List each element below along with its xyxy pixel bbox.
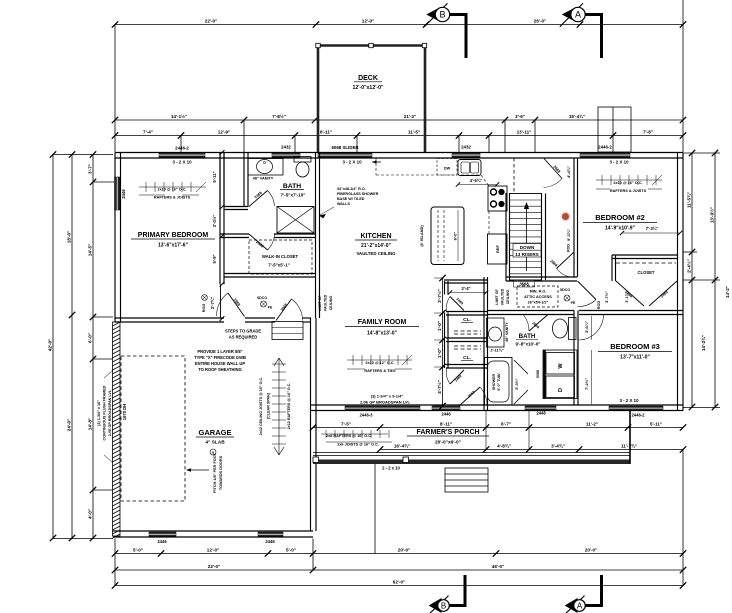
rod symbol primary bedroom: [202, 295, 208, 301]
island dim 8-0: [457, 210, 459, 261]
ext stub 505: [504, 120, 506, 152]
svg-text:2'-11¾": 2'-11¾": [490, 349, 503, 353]
svg-text:TO ROOF SHEATHING: TO ROOF SHEATHING: [198, 367, 242, 372]
svg-text:11'-7¾": 11'-7¾": [621, 443, 637, 449]
svg-text:KITCHEN: KITCHEN: [360, 233, 391, 240]
window 2448 bottom: [525, 406, 556, 410]
svg-text:5'-11": 5'-11": [650, 422, 662, 427]
svg-text:1'-0": 1'-0": [437, 348, 442, 358]
svg-text:MIN. R.O.: MIN. R.O.: [530, 290, 547, 294]
svg-text:BATH: BATH: [283, 183, 301, 190]
garage top wall east: [303, 317, 312, 319]
svg-text:20'-0": 20'-0": [398, 548, 410, 553]
door CL1: [450, 297, 464, 311]
svg-text:D: D: [558, 388, 564, 392]
svg-text:2x10 @ 12" O.C.: 2x10 @ 12" O.C.: [365, 361, 394, 365]
svg-text:BATH: BATH: [519, 333, 536, 340]
left ext stub top: [53, 154, 113, 156]
svg-text:6'-11": 6'-11": [320, 130, 332, 135]
svg-text:11'-5¾": 11'-5¾": [686, 192, 692, 208]
porch post left: [313, 457, 319, 463]
svg-text:5'-0": 5'-0": [286, 548, 296, 553]
left ext stub 490: [93, 489, 112, 491]
smoke detector entry: [261, 301, 267, 307]
svg-text:(CLEAR SPAN): (CLEAR SPAN): [267, 392, 271, 419]
svg-text:8'-11": 8'-11": [440, 422, 452, 427]
primary bedroom rafter symbol: [139, 186, 206, 188]
laundry closet wall dark edge: [543, 350, 545, 399]
CL mid wall: [446, 337, 487, 339]
CL top wall: [444, 279, 487, 281]
slider 6068: [318, 153, 372, 158]
wall under stairs: [506, 276, 577, 278]
svg-text:3'-0½": 3'-0½": [212, 215, 217, 228]
svg-text:2'-4": 2'-4": [461, 286, 470, 291]
porch dim row 2: [380, 449, 683, 451]
section marker B: [429, 598, 442, 613]
bifold door marks: [514, 360, 528, 374]
svg-text:7'-5": 7'-5": [341, 422, 351, 427]
svg-text:21'-2": 21'-2": [404, 114, 416, 119]
right exterior wall: [677, 153, 679, 411]
svg-text:AS REQUIRED: AS REQUIRED: [229, 335, 257, 340]
svg-text:6068 SLIDER: 6068 SLIDER: [331, 145, 359, 150]
header 2446-3 family room: [345, 406, 420, 410]
svg-text:26'-0": 26'-0": [534, 19, 546, 24]
svg-text:CL.: CL.: [463, 317, 471, 323]
svg-text:VAULTED: VAULTED: [324, 294, 328, 311]
svg-text:RAFTERS & JOISTS: RAFTERS & JOISTS: [154, 196, 191, 200]
svg-text:1'-0": 1'-0": [437, 321, 442, 331]
svg-text:3'-7¾": 3'-7¾": [210, 297, 215, 310]
bath north wall: [487, 310, 574, 312]
red survey dot: [562, 213, 569, 220]
svg-text:STEPS TO GRADE: STEPS TO GRADE: [225, 329, 261, 334]
svg-text:FIBERGLASS SHOWER: FIBERGLASS SHOWER: [337, 192, 379, 196]
svg-text:2446: 2446: [157, 539, 167, 544]
door lower hall 2868: [557, 252, 575, 269]
entry steps rect: [272, 322, 303, 340]
svg-text:3'-7½": 3'-7½": [436, 289, 442, 303]
svg-text:2.0E GP BROADSPAN LVL: 2.0E GP BROADSPAN LVL: [360, 400, 411, 405]
garage ceiling joist symbol: [278, 358, 280, 455]
left ext stub 317: [93, 316, 113, 318]
svg-text:4" SLAB: 4" SLAB: [205, 440, 225, 446]
top exterior wall: [115, 152, 683, 154]
svg-text:24'-0": 24'-0": [67, 419, 72, 431]
door bath vestibule upper: [249, 191, 268, 207]
svg-text:FARMER'S PORCH: FARMER'S PORCH: [416, 429, 479, 436]
right ext stub 252: [683, 251, 697, 253]
bedroom2 closet: [612, 254, 678, 256]
interior dim column 442: [442, 278, 444, 406]
svg-text:5'-0": 5'-0": [133, 548, 143, 553]
deck post mid: [369, 43, 373, 47]
svg-text:BEDROOM #3: BEDROOM #3: [610, 342, 660, 351]
kitchen island: [431, 207, 464, 265]
svg-text:14'-2": 14'-2": [725, 286, 730, 298]
ext line right bottom: [682, 449, 684, 586]
svg-text:2x6 JOISTS @ 16" O.C.: 2x6 JOISTS @ 16" O.C.: [337, 443, 379, 447]
svg-text:SDCO: SDCO: [560, 288, 570, 292]
svg-text:WALLS: WALLS: [337, 202, 350, 206]
svg-text:5'-3½": 5'-3½": [515, 378, 519, 390]
svg-text:21'-2"x14'-0": 21'-2"x14'-0": [361, 243, 392, 249]
right dim col inner: [691, 153, 693, 407]
svg-text:(3) 1-3/4" x 16": (3) 1-3/4" x 16": [97, 400, 101, 426]
svg-text:(3) 1-3/4" x 9-1/4": (3) 1-3/4" x 9-1/4": [371, 394, 404, 399]
svg-text:48" VANITY: 48" VANITY: [253, 177, 274, 181]
door top of stairs: [544, 159, 562, 179]
corner counter: [481, 175, 489, 186]
garage window 2446 right: [258, 532, 283, 537]
svg-text:3'-6¼": 3'-6¼": [584, 321, 589, 333]
door 3668 label: [514, 280, 535, 287]
svg-text:3 - 2 X 10: 3 - 2 X 10: [342, 160, 362, 165]
porch ext line 486: [485, 411, 487, 450]
garage door dashed opening: [121, 356, 185, 501]
svg-text:3 - 2 X 10: 3 - 2 X 10: [172, 160, 192, 165]
top-right projection: [598, 107, 631, 152]
svg-text:B: B: [441, 601, 446, 610]
svg-text:13'-6"x17'-6": 13'-6"x17'-6": [158, 243, 189, 249]
kitchen sink: [458, 160, 481, 176]
svg-text:2446-2: 2446-2: [598, 145, 612, 150]
svg-text:2.0E GP BROADSPAN LVL: 2.0E GP BROADSPAN LVL: [108, 389, 112, 436]
porch steps: [445, 468, 488, 492]
svg-text:3'-4¾": 3'-4¾": [551, 443, 565, 449]
ext stub 295: [294, 136, 296, 153]
deck walls: [317, 44, 427, 47]
svg-text:14'-9"x10'-9": 14'-9"x10'-9": [605, 226, 636, 232]
svg-text:2 - 2 x 10: 2 - 2 x 10: [382, 466, 400, 471]
svg-text:9'-8"x10'-0": 9'-8"x10'-0": [516, 342, 541, 347]
svg-text:3 - 2 X 10: 3 - 2 X 10: [619, 398, 639, 403]
svg-text:14'-5": 14'-5": [88, 244, 93, 256]
bedroom2 rafter symbol: [596, 179, 662, 181]
svg-text:6'-0": 6'-0": [88, 333, 93, 343]
svg-text:2446-2: 2446-2: [175, 146, 189, 151]
svg-text:2446: 2446: [441, 412, 451, 417]
farmers porch deck: [313, 452, 630, 454]
svg-text:2x10 @ 16" O.C.: 2x10 @ 16" O.C.: [157, 188, 186, 192]
CL column left wall upper: [444, 281, 446, 295]
svg-text:3 - 2 X 10: 3 - 2 X 10: [609, 160, 629, 165]
refrigerator: [488, 234, 508, 264]
svg-text:LIMIT OF: LIMIT OF: [318, 295, 322, 311]
right ext stub 407: [683, 407, 720, 409]
svg-text:4'-8¾": 4'-8¾": [497, 443, 511, 449]
dim row 2: [115, 119, 683, 121]
closet north wall right segment: [274, 233, 316, 235]
svg-text:SHOWER: SHOWER: [492, 374, 496, 391]
section marker A: [565, 598, 578, 613]
door bedroom2 corner: [578, 281, 597, 300]
ext line left bottom: [114, 539, 116, 586]
left ext stub 359: [93, 358, 112, 360]
landing dashed boundary: [513, 158, 515, 193]
svg-text:B: B: [439, 10, 445, 20]
attic access dashed: [517, 286, 558, 307]
svg-text:15'-4¾": 15'-4¾": [569, 113, 585, 119]
ext line house left top: [114, 25, 116, 153]
svg-text:2446-2: 2446-2: [631, 413, 645, 418]
svg-text:18'-0": 18'-0": [67, 231, 72, 243]
left ext stub bottom: [53, 538, 113, 540]
svg-text:8'-0": 8'-0": [453, 232, 458, 241]
stair arrow: [526, 206, 528, 271]
CL2 bottom wall: [446, 364, 487, 366]
svg-text:7'-8½": 7'-8½": [272, 113, 286, 119]
svg-text:DW: DW: [444, 167, 451, 171]
garage top wall west: [115, 317, 224, 319]
svg-text:48" VANITY: 48" VANITY: [505, 322, 509, 342]
svg-text:2x8 RAFTERS @ 16" O.C.: 2x8 RAFTERS @ 16" O.C.: [326, 434, 372, 438]
svg-text:PRIMARY BEDROOM: PRIMARY BEDROOM: [138, 232, 209, 239]
svg-text:11'-2": 11'-2": [586, 422, 598, 427]
stove/range: [488, 186, 507, 211]
svg-text:BEDROOM #2: BEDROOM #2: [595, 213, 645, 222]
stairwell: [510, 194, 542, 281]
svg-text:16'-4¾": 16'-4¾": [394, 443, 410, 449]
CL column left wall mid: [444, 313, 446, 369]
bottom dim row 1: [115, 553, 683, 555]
ext line porch 375: [374, 464, 376, 554]
wall bath-closet column east / kitchen west: [315, 153, 317, 319]
bedroom2 left wall: [573, 158, 575, 277]
svg-text:TYPE "X" FIRECODE GWB: TYPE "X" FIRECODE GWB: [194, 355, 246, 360]
ext stub 244: [243, 120, 245, 152]
right ext stub 280: [683, 279, 720, 281]
svg-text:3'-7½": 3'-7½": [604, 291, 609, 303]
svg-text:5'-9": 5'-9": [212, 254, 217, 263]
smoke detector hall: [564, 295, 570, 301]
svg-text:A: A: [575, 10, 581, 20]
svg-text:(6' ISLAND): (6' ISLAND): [419, 225, 424, 247]
svg-text:TOWARDS DOORS: TOWARDS DOORS: [219, 455, 223, 490]
svg-text:CEILING: CEILING: [329, 296, 333, 311]
ext stub 459: [458, 136, 460, 153]
svg-text:12'-0": 12'-0": [362, 19, 374, 24]
svg-text:W: W: [558, 363, 564, 369]
svg-text:VAULTED: VAULTED: [501, 288, 505, 305]
svg-text:REF: REF: [495, 244, 500, 253]
svg-text:5'-11": 5'-11": [212, 171, 217, 182]
svg-text:FAMILY ROOM: FAMILY ROOM: [358, 319, 407, 326]
shower with X: [277, 207, 314, 234]
ext stub 489: [488, 136, 490, 153]
svg-text:3'-1¾": 3'-1¾": [625, 291, 629, 303]
closet double doors: [616, 281, 644, 306]
right ext stub 153: [683, 152, 720, 154]
svg-text:3'-7": 3'-7": [88, 164, 93, 174]
pitch arrow: [190, 469, 209, 471]
closet rod dashed: [249, 240, 312, 274]
svg-text:VAULTED CEILING: VAULTED CEILING: [356, 251, 396, 256]
svg-text:CLOSET: CLOSET: [638, 270, 655, 275]
stair left wall: [505, 193, 507, 281]
porch dim row 1: [313, 427, 683, 429]
porch ext line 529: [528, 411, 530, 450]
primary bath vanity: [248, 159, 283, 176]
left ext stub 182: [93, 181, 114, 183]
porch post: [403, 457, 409, 463]
svg-text:RAFTERS & JOISTS: RAFTERS & JOISTS: [610, 189, 647, 193]
walk-in closet south wall: [224, 273, 316, 275]
svg-text:7'-4": 7'-4": [143, 130, 153, 135]
door bath: [529, 315, 548, 332]
svg-text:2x10 @ 16" O.C.: 2x10 @ 16" O.C.: [613, 181, 642, 185]
stair right wall: [541, 194, 543, 281]
svg-text:PE: PE: [268, 306, 273, 310]
svg-text:BASE W/ TILED: BASE W/ TILED: [337, 197, 365, 201]
left dim col 3: [92, 155, 94, 539]
bottom exterior wall: [311, 404, 683, 406]
svg-text:RAFTERS & TIES: RAFTERS & TIES: [364, 369, 396, 373]
window 2446-2 right: [580, 153, 630, 158]
ext stub 313 bottom: [312, 539, 314, 571]
svg-text:2x12 CEILING JOISTS @ 16" O.C.: 2x12 CEILING JOISTS @ 16" O.C.: [259, 377, 263, 435]
deck post right: [422, 43, 426, 47]
svg-text:3668: 3668: [519, 281, 529, 286]
svg-text:5088: 5088: [536, 370, 540, 378]
svg-text:PROVIDE 1 LAYER 5/8": PROVIDE 1 LAYER 5/8": [197, 349, 242, 354]
right dim col outer: [714, 153, 716, 407]
svg-text:ROD: ROD: [597, 301, 601, 310]
svg-text:SDCO: SDCO: [257, 296, 267, 300]
family room rafter symbol: [347, 359, 412, 361]
svg-text:4'-7½": 4'-7½": [436, 380, 442, 394]
svg-text:20'-0"x6'-0": 20'-0"x6'-0": [435, 440, 461, 446]
bottom dim row 3 62ft: [115, 585, 683, 587]
window 2446-2 bottom: [609, 406, 663, 410]
svg-text:DOWN: DOWN: [520, 245, 535, 250]
svg-text:13 RISERS: 13 RISERS: [515, 252, 539, 257]
window 2446-2 left: [159, 153, 205, 158]
ext stub 181: [180, 136, 182, 153]
wall primary bedroom / hall: [219, 153, 221, 285]
kitchen top counter dashed: [376, 174, 480, 176]
svg-text:ROD: ROD: [567, 244, 571, 252]
CL1 floor wall: [446, 311, 487, 313]
deck post left: [316, 43, 320, 47]
porch rafter symbol: [321, 433, 388, 435]
svg-text:ATTIC ACCESS: ATTIC ACCESS: [524, 295, 552, 299]
svg-text:CL.: CL.: [463, 355, 471, 361]
svg-text:CONTINUOUS FLUSH FRAMED: CONTINUOUS FLUSH FRAMED: [103, 385, 107, 440]
ext line house right top: [682, 0, 684, 152]
section marker A: [562, 7, 576, 22]
bath vanity: [487, 318, 505, 347]
window 2446 left wall: [115, 177, 121, 210]
svg-text:14'-2¾": 14'-2¾": [700, 335, 706, 351]
svg-text:7'-8": 7'-8": [643, 130, 653, 135]
garage right wall / family room left wall: [310, 318, 312, 531]
svg-text:DECK: DECK: [358, 75, 378, 82]
svg-text:5'-0" TUB/: 5'-0" TUB/: [497, 373, 501, 390]
tub: [485, 358, 513, 406]
washer dryer: [543, 350, 577, 399]
svg-text:46'-0": 46'-0": [492, 564, 504, 569]
svg-text:2x12 RAFTERS @ 16" O.C.: 2x12 RAFTERS @ 16" O.C.: [287, 383, 291, 430]
svg-text:A: A: [577, 601, 583, 610]
svg-text:WALK-IN CLOSET: WALK-IN CLOSET: [262, 254, 298, 259]
svg-text:13'-9½": 13'-9½": [709, 207, 715, 223]
svg-text:4'-6¾": 4'-6¾": [470, 178, 483, 183]
svg-text:PITCH 1/8" PER FOOT: PITCH 1/8" PER FOOT: [213, 452, 217, 493]
left exterior wall: [114, 153, 116, 323]
svg-text:7'-5"x5'-1": 7'-5"x5'-1": [268, 263, 289, 268]
svg-text:14'-1½": 14'-1½": [171, 113, 187, 119]
svg-text:12'-0": 12'-0": [207, 548, 219, 553]
arrow under slider: [372, 161, 381, 163]
svg-text:13'-11": 13'-11": [517, 130, 532, 135]
svg-text:PE: PE: [571, 301, 576, 305]
bottom dim row 2: [115, 569, 683, 571]
svg-text:14'-8"x13'-0": 14'-8"x13'-0": [367, 331, 398, 337]
wall hall / bath vestibule: [243, 153, 245, 208]
svg-text:7'-2½": 7'-2½": [584, 378, 589, 390]
svg-text:7'-3¼": 7'-3¼": [646, 226, 659, 231]
garage window 2446 left: [149, 532, 176, 537]
svg-text:LIMIT OF: LIMIT OF: [495, 289, 499, 305]
bath/bedroom3 wall: [573, 311, 575, 406]
door garage entry 2868: [228, 293, 245, 317]
wall vestibule upper: [224, 206, 248, 208]
svg-text:CEILING: CEILING: [506, 290, 510, 305]
garage left wall hatched: [113, 322, 121, 536]
door to outside steps 3068: [276, 299, 292, 321]
window 2432 right: [452, 153, 480, 158]
svg-text:20'-0": 20'-0": [585, 548, 597, 553]
svg-text:62'-0": 62'-0": [393, 580, 405, 585]
svg-text:26"x54-1/2": 26"x54-1/2": [528, 301, 549, 305]
svg-text:2'-4½": 2'-4½": [686, 259, 692, 273]
garage bottom wall: [113, 530, 313, 532]
bath toilet: [569, 318, 577, 340]
left dim 18-24: [71, 155, 73, 539]
window 2446 bottom: [432, 406, 460, 410]
dim row top 22-12-26: [115, 24, 683, 26]
svg-text:22'-0": 22'-0": [205, 19, 217, 24]
svg-text:2432: 2432: [281, 145, 291, 150]
svg-text:14'-8": 14'-8": [88, 418, 93, 430]
svg-text:22'-0": 22'-0": [208, 564, 220, 569]
primary bath toilet: [294, 157, 311, 163]
closet north wall left segment: [220, 233, 249, 235]
left dim 42ft: [52, 155, 54, 539]
dim row 3 windows: [115, 135, 683, 137]
svg-text:9'-3¾": 9'-3¾": [566, 229, 571, 241]
kitchen right counter dashed edge: [488, 211, 490, 234]
svg-text:2432: 2432: [461, 145, 471, 150]
svg-text:11'-5": 11'-5": [408, 130, 420, 135]
svg-text:⊕: ⊕: [212, 451, 215, 455]
CL column right wall: [483, 277, 485, 411]
svg-text:2448: 2448: [536, 411, 546, 416]
ext stub 357: [356, 136, 358, 153]
svg-text:1670 DH: 1670 DH: [122, 404, 127, 421]
svg-text:2446: 2446: [121, 189, 126, 199]
svg-text:12'-0"x12'-0": 12'-0"x12'-0": [352, 85, 384, 91]
door CL2: [450, 370, 464, 384]
primary bedroom door leaf in wall A opening: [220, 284, 222, 318]
svg-text:2446-3: 2446-3: [359, 413, 373, 418]
svg-text:7'-5"x7'-10": 7'-5"x7'-10": [281, 193, 306, 198]
svg-text:3'-6": 3'-6": [515, 114, 525, 119]
door hall-bedroom3 area 3068: [459, 387, 480, 406]
dishwasher: [437, 159, 457, 176]
